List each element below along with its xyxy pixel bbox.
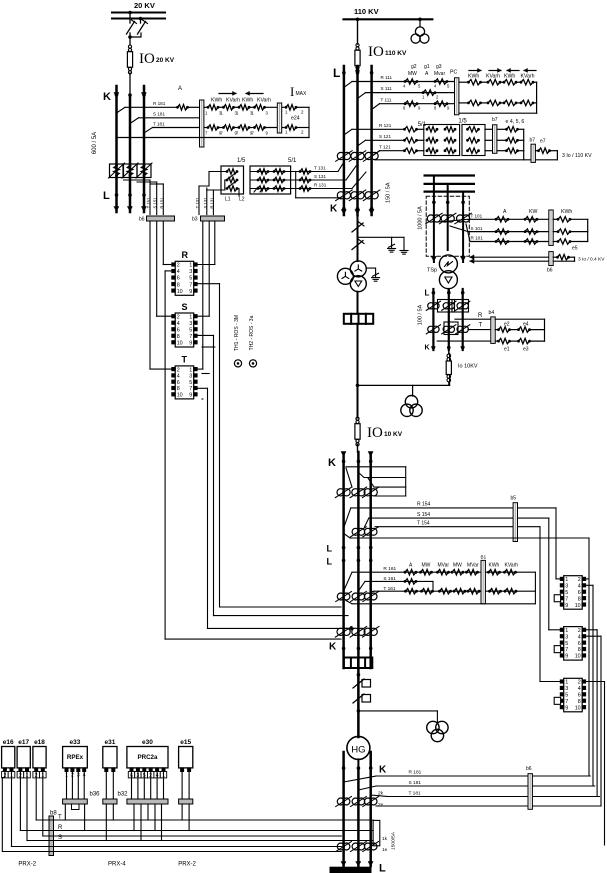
svg-text:T 131: T 131 <box>314 166 326 171</box>
svg-text:e1: e1 <box>504 347 510 353</box>
svg-text:1: 1 <box>565 680 568 686</box>
svg-text:KWh: KWh <box>504 74 515 80</box>
svg-text:KWh: KWh <box>489 563 500 569</box>
svg-text:PRX-2: PRX-2 <box>18 862 36 868</box>
svg-text:KVarh: KVarh <box>505 563 519 569</box>
svg-text:A: A <box>503 209 507 215</box>
svg-text:4: 4 <box>578 584 581 590</box>
svg-text:8: 8 <box>578 699 581 705</box>
svg-text:KW: KW <box>529 209 537 215</box>
svg-text:HG: HG <box>351 745 365 756</box>
svg-text:g3: g3 <box>436 64 442 70</box>
svg-text:10: 10 <box>575 603 581 609</box>
svg-text:10: 10 <box>177 340 183 346</box>
svg-text:7: 7 <box>565 647 568 653</box>
svg-text:9: 9 <box>189 289 192 295</box>
svg-text:MAX: MAX <box>296 91 308 97</box>
svg-text:L1: L1 <box>225 197 231 203</box>
svg-text:1: 1 <box>189 263 192 269</box>
svg-text:b7: b7 <box>530 138 536 144</box>
svg-text:R 154: R 154 <box>417 502 431 508</box>
svg-text:600 / 5A: 600 / 5A <box>92 132 98 154</box>
svg-text:I: I <box>290 84 294 99</box>
svg-text:T: T <box>479 323 483 329</box>
svg-text:1: 1 <box>565 628 568 634</box>
svg-text:3: 3 <box>565 634 568 640</box>
svg-text:b4: b4 <box>489 310 495 316</box>
svg-text:150 / 5A: 150 / 5A <box>385 182 391 203</box>
svg-text:b36: b36 <box>90 792 101 798</box>
svg-text:MW: MW <box>408 71 417 77</box>
svg-text:e7: e7 <box>540 139 546 145</box>
svg-text:5: 5 <box>565 641 568 647</box>
svg-text:2e: 2e <box>378 802 384 808</box>
svg-text:T 101: T 101 <box>471 214 483 219</box>
svg-text:R 111: R 111 <box>381 75 393 80</box>
svg-text:MVar: MVar <box>467 563 479 569</box>
svg-text:8: 8 <box>177 282 180 288</box>
svg-text:5: 5 <box>565 693 568 699</box>
svg-text:L: L <box>425 289 430 298</box>
svg-text:8: 8 <box>578 596 581 602</box>
svg-text:B1: B1 <box>481 555 487 560</box>
svg-text:e30: e30 <box>142 739 153 746</box>
svg-text:2: 2 <box>177 263 180 269</box>
svg-text:6: 6 <box>177 380 180 386</box>
svg-text:R 181: R 181 <box>153 101 166 106</box>
svg-text:g2: g2 <box>411 64 417 70</box>
svg-text:S 111: S 111 <box>381 86 393 91</box>
svg-text:9: 9 <box>565 603 568 609</box>
svg-text:T 181: T 181 <box>409 790 422 796</box>
svg-text:6: 6 <box>578 590 581 596</box>
svg-text:T: T <box>182 355 188 365</box>
svg-text:1k: 1k <box>382 836 388 842</box>
svg-text:g1: g1 <box>424 64 430 70</box>
svg-text:IO: IO <box>367 425 383 441</box>
svg-text:KWh: KWh <box>211 98 222 104</box>
svg-text:S 121: S 121 <box>379 134 391 139</box>
svg-text:2k: 2k <box>378 791 384 797</box>
svg-text:L: L <box>103 190 110 202</box>
svg-text:1/5: 1/5 <box>458 119 467 125</box>
svg-text:4: 4 <box>177 321 180 327</box>
svg-text:S 131: S 131 <box>314 174 326 179</box>
svg-text:5/1: 5/1 <box>288 158 297 164</box>
svg-text:TSp: TSp <box>427 268 437 274</box>
svg-text:110 KV: 110 KV <box>385 50 407 57</box>
svg-text:KWh: KWh <box>468 74 479 80</box>
svg-text:Io 10KV: Io 10KV <box>458 364 478 370</box>
svg-text:10 KV: 10 KV <box>384 431 403 438</box>
svg-text:5: 5 <box>565 590 568 596</box>
svg-text:MW: MW <box>453 563 462 569</box>
svg-text:A: A <box>178 86 182 92</box>
svg-text:10: 10 <box>575 654 581 660</box>
svg-text:3: 3 <box>189 321 192 327</box>
svg-text:7: 7 <box>565 699 568 705</box>
svg-text:1000 / 5A: 1000 / 5A <box>418 206 424 230</box>
svg-text:T 151: T 151 <box>146 197 151 208</box>
svg-text:R 161: R 161 <box>383 566 396 572</box>
svg-text:RPEx: RPEx <box>67 754 84 761</box>
svg-text:KVarh: KVarh <box>521 74 535 80</box>
svg-text:2: 2 <box>578 680 581 686</box>
svg-text:3: 3 <box>189 269 192 275</box>
svg-text:5: 5 <box>189 276 192 282</box>
svg-text:K: K <box>425 345 430 352</box>
svg-text:8: 8 <box>177 386 180 392</box>
svg-text:2: 2 <box>578 628 581 634</box>
svg-text:7: 7 <box>565 596 568 602</box>
svg-text:e5: e5 <box>572 246 578 252</box>
svg-text:R 121: R 121 <box>379 123 392 128</box>
svg-text:10: 10 <box>575 705 581 711</box>
svg-text:S 151: S 151 <box>153 197 158 209</box>
svg-text:7: 7 <box>189 386 192 392</box>
svg-text:L: L <box>327 544 333 554</box>
svg-text:R 101: R 101 <box>471 236 484 241</box>
svg-text:7: 7 <box>189 334 192 340</box>
svg-text:L: L <box>379 863 386 873</box>
svg-text:7: 7 <box>189 282 192 288</box>
svg-text:e17: e17 <box>18 739 29 746</box>
svg-text:PRX-2: PRX-2 <box>178 862 196 868</box>
svg-text:1: 1 <box>189 367 192 373</box>
svg-text:e33: e33 <box>70 739 81 746</box>
svg-text:L: L <box>333 66 340 80</box>
svg-text:6: 6 <box>578 641 581 647</box>
svg-text:e15: e15 <box>180 739 191 746</box>
svg-text:1e: 1e <box>382 847 388 853</box>
svg-text:R: R <box>478 313 483 319</box>
svg-text:b6: b6 <box>139 217 145 223</box>
svg-text:9: 9 <box>565 654 568 660</box>
svg-text:10: 10 <box>177 393 183 399</box>
svg-text:IO: IO <box>368 44 384 60</box>
svg-text:4: 4 <box>578 686 581 692</box>
svg-text:e2: e2 <box>504 322 510 328</box>
svg-text:T 111: T 111 <box>381 97 392 102</box>
svg-text:PC: PC <box>450 70 457 76</box>
svg-text:4: 4 <box>177 374 180 380</box>
svg-text:MW: MW <box>422 563 431 569</box>
svg-text:e 4, 5, 6: e 4, 5, 6 <box>506 119 525 125</box>
svg-text:10: 10 <box>177 289 183 295</box>
svg-text:1: 1 <box>565 577 568 583</box>
svg-text:2: 2 <box>177 367 180 373</box>
svg-text:6: 6 <box>177 276 180 282</box>
svg-text:1: 1 <box>189 314 192 320</box>
svg-text:Mvar: Mvar <box>434 71 445 77</box>
svg-text:3: 3 <box>565 686 568 692</box>
svg-text:KVarh: KVarh <box>257 98 271 104</box>
svg-text:1/5: 1/5 <box>237 158 246 164</box>
svg-text:b6: b6 <box>547 268 553 274</box>
svg-text:T 181: T 181 <box>153 121 165 126</box>
svg-text:L: L <box>327 557 333 567</box>
svg-text:IO: IO <box>139 51 155 67</box>
svg-text:TH1 - ROS - 3M: TH1 - ROS - 3M <box>234 315 240 351</box>
svg-text:TH2 - ROS - 3a: TH2 - ROS - 3a <box>249 315 255 350</box>
svg-text:5: 5 <box>189 380 192 386</box>
svg-text:K: K <box>103 91 111 103</box>
svg-text:T 121: T 121 <box>379 144 391 149</box>
svg-text:20 KV: 20 KV <box>156 57 175 64</box>
svg-text:6: 6 <box>177 327 180 333</box>
svg-text:e31: e31 <box>104 739 115 746</box>
svg-text:b6: b6 <box>526 766 532 772</box>
svg-text:e24: e24 <box>291 116 300 122</box>
svg-text:K: K <box>330 204 338 215</box>
svg-text:6: 6 <box>578 693 581 699</box>
svg-text:2: 2 <box>177 314 180 320</box>
svg-text:K: K <box>379 765 387 776</box>
svg-text:4: 4 <box>177 269 180 275</box>
svg-text:KWh: KWh <box>561 209 572 215</box>
svg-text:3 Io / 0.4 KV: 3 Io / 0.4 KV <box>578 257 605 263</box>
svg-text:e18: e18 <box>34 739 45 746</box>
svg-text:3: 3 <box>189 374 192 380</box>
svg-text:3 Io / 110 KV: 3 Io / 110 KV <box>562 153 592 159</box>
svg-text:K: K <box>328 457 336 469</box>
svg-text:8: 8 <box>177 334 180 340</box>
svg-text:110 KV: 110 KV <box>354 7 379 16</box>
svg-text:PRX-4: PRX-4 <box>108 862 126 868</box>
svg-text:T 154: T 154 <box>417 521 430 527</box>
svg-text:b3: b3 <box>192 217 198 223</box>
svg-text:9: 9 <box>189 393 192 399</box>
svg-text:e3: e3 <box>523 347 529 353</box>
svg-text:R 131: R 131 <box>209 197 214 209</box>
svg-text:b32: b32 <box>118 792 129 798</box>
svg-text:S 181: S 181 <box>153 112 165 117</box>
svg-text:PRC2a: PRC2a <box>137 754 158 761</box>
svg-text:MVar: MVar <box>438 563 450 569</box>
svg-text:KWh: KWh <box>242 98 253 104</box>
svg-text:R: R <box>182 250 189 260</box>
svg-text:S 161: S 161 <box>383 576 396 582</box>
svg-text:2: 2 <box>578 577 581 583</box>
svg-text:3: 3 <box>565 584 568 590</box>
svg-text:S 181: S 181 <box>409 780 422 786</box>
svg-text:4: 4 <box>578 634 581 640</box>
svg-text:S 154: S 154 <box>417 512 430 518</box>
svg-text:e16: e16 <box>3 739 14 746</box>
svg-text:R 131: R 131 <box>314 183 327 188</box>
svg-text:K: K <box>329 642 337 653</box>
svg-text:R 151: R 151 <box>159 197 164 209</box>
svg-text:R 181: R 181 <box>409 770 422 776</box>
svg-text:b7: b7 <box>492 117 498 123</box>
svg-text:S 101: S 101 <box>471 226 483 231</box>
svg-text:e4: e4 <box>523 322 529 328</box>
svg-text:b5: b5 <box>511 496 517 502</box>
svg-text:L2: L2 <box>239 197 245 203</box>
svg-text:20 KV: 20 KV <box>134 1 155 10</box>
svg-text:KVarh: KVarh <box>486 74 500 80</box>
svg-text:KVarh: KVarh <box>226 98 240 104</box>
svg-text:T 131: T 131 <box>195 197 200 208</box>
svg-text:S: S <box>182 302 188 312</box>
svg-text:100 / 5A: 100 / 5A <box>418 304 424 325</box>
svg-text:9: 9 <box>565 705 568 711</box>
svg-text:1500/5A: 1500/5A <box>391 831 397 850</box>
svg-text:9: 9 <box>189 340 192 346</box>
svg-text:T 161: T 161 <box>383 586 396 592</box>
svg-text:8: 8 <box>578 647 581 653</box>
svg-text:S 131: S 131 <box>203 197 208 209</box>
svg-text:5: 5 <box>189 327 192 333</box>
